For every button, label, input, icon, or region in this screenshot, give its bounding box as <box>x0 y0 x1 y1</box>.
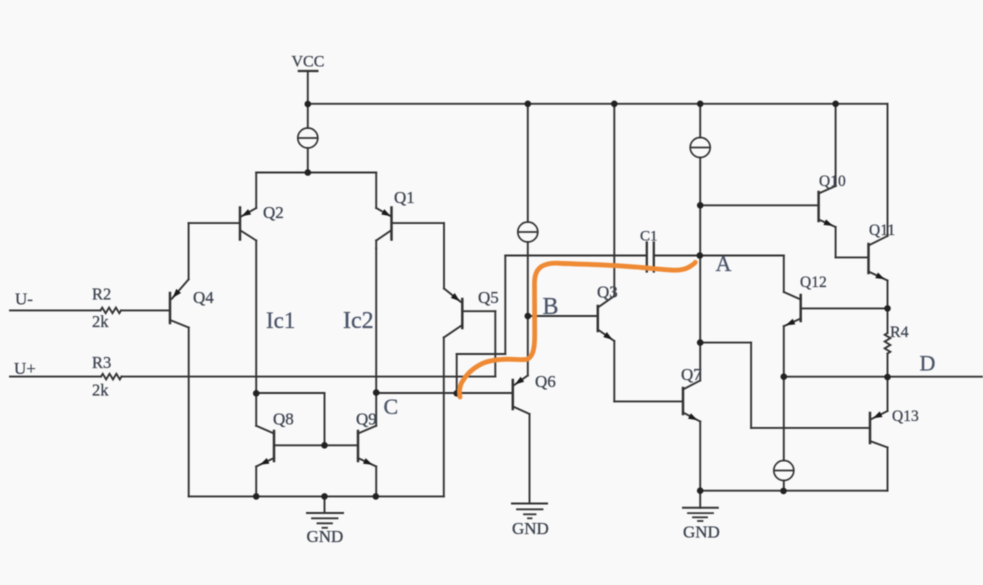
svg-text:Q5: Q5 <box>478 288 499 307</box>
svg-text:U+: U+ <box>14 359 36 378</box>
svg-text:B: B <box>543 294 559 320</box>
svg-text:Q3: Q3 <box>597 283 618 302</box>
svg-text:Q12: Q12 <box>800 274 827 291</box>
svg-text:C: C <box>384 394 399 419</box>
svg-text:Q11: Q11 <box>869 222 895 239</box>
svg-text:Q4: Q4 <box>193 288 214 307</box>
svg-text:R4: R4 <box>890 324 909 341</box>
svg-text:D: D <box>920 351 936 376</box>
svg-text:Ic2: Ic2 <box>343 308 374 334</box>
svg-text:Ic1: Ic1 <box>266 308 295 333</box>
svg-text:R2: R2 <box>92 285 111 304</box>
svg-text:Q2: Q2 <box>263 203 284 222</box>
svg-text:Q7: Q7 <box>681 365 702 384</box>
svg-text:2k: 2k <box>92 381 109 400</box>
svg-text:GND: GND <box>683 523 720 542</box>
svg-text:GND: GND <box>512 519 549 538</box>
svg-text:2k: 2k <box>92 312 109 331</box>
svg-text:A: A <box>716 251 732 276</box>
svg-text:Q8: Q8 <box>273 410 294 429</box>
svg-text:Q10: Q10 <box>819 173 846 190</box>
svg-text:VCC: VCC <box>292 54 325 71</box>
svg-text:R3: R3 <box>92 353 111 372</box>
svg-text:U-: U- <box>15 290 33 309</box>
svg-text:GND: GND <box>307 527 344 546</box>
svg-text:Q9: Q9 <box>356 410 377 429</box>
svg-text:Q1: Q1 <box>394 188 415 207</box>
svg-text:Q6: Q6 <box>535 372 556 391</box>
svg-text:C1: C1 <box>640 229 658 245</box>
svg-text:Q13: Q13 <box>892 408 919 425</box>
